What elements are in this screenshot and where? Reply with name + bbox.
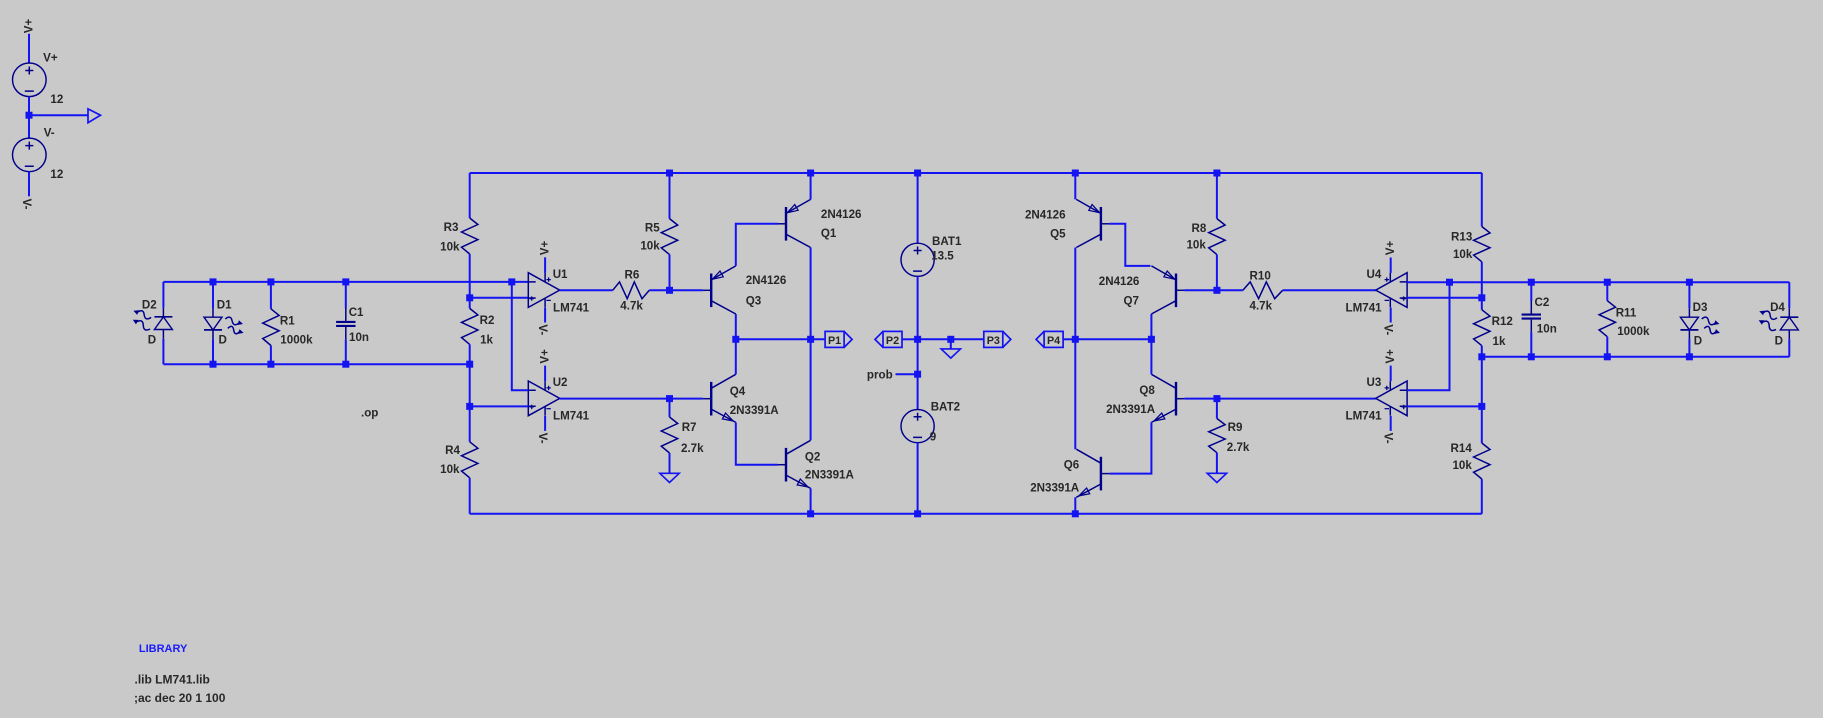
- svg-text:2N4126: 2N4126: [1025, 209, 1066, 222]
- svg-text:prob: prob: [867, 369, 893, 382]
- wire node to R10: [1217, 289, 1243, 291]
- junction lower rail / R11: [1604, 353, 1611, 360]
- junction lower rail / R1: [267, 361, 274, 368]
- wire top bus to R8: [1216, 173, 1218, 219]
- wire R14 to bottom bus: [1481, 479, 1483, 514]
- resistor R12: [1474, 310, 1490, 346]
- wire U2 output to Q4 base: [560, 398, 703, 400]
- svg-text:2.7k: 2.7k: [681, 442, 704, 455]
- wire R7 to ground: [669, 453, 671, 473]
- svg-text:;ac dec 20 1 100: ;ac dec 20 1 100: [134, 691, 226, 705]
- svg-text:2N4126: 2N4126: [746, 274, 787, 287]
- wire source V+ bottom to source V- top: [28, 97, 30, 139]
- wire BAT1 to prob node: [917, 276, 919, 409]
- svg-text:.lib LM741.lib: .lib LM741.lib: [135, 672, 210, 686]
- svg-text:R3: R3: [444, 221, 459, 234]
- svg-text:9: 9: [930, 431, 937, 444]
- wire U2 lower input: [470, 405, 529, 407]
- wire R5 to node: [669, 255, 671, 291]
- svg-text:LM741: LM741: [553, 301, 590, 314]
- wire Q7 base to R8/R10 node: [1184, 289, 1217, 291]
- svg-text:Q8: Q8: [1139, 384, 1155, 397]
- svg-text:R8: R8: [1191, 222, 1206, 235]
- wire U2 V+ stub: [544, 366, 546, 382]
- wire D2 cathode: [162, 339, 164, 364]
- resistor R8: [1209, 219, 1225, 255]
- junction upper rail / C1: [342, 278, 349, 285]
- op-amp U1: [528, 273, 559, 308]
- voltage source V+ (12V): [13, 63, 47, 97]
- svg-text:10n: 10n: [349, 331, 369, 344]
- wire D2 anode: [162, 282, 164, 308]
- wire U3 V- stub: [1390, 416, 1392, 431]
- svg-text:V+: V+: [22, 18, 35, 33]
- svg-text:V-: V-: [1382, 433, 1395, 444]
- junction P4 node on right rail: [1072, 336, 1079, 343]
- junction BAT rail / P2 wire: [914, 336, 921, 343]
- wire BAT2 to bottom bus: [917, 443, 919, 514]
- wire R9 top: [1216, 399, 1218, 419]
- svg-text:Q5: Q5: [1050, 227, 1066, 240]
- wire C2 top: [1530, 282, 1532, 301]
- wire C1 top: [345, 282, 347, 308]
- svg-text:P2: P2: [886, 335, 899, 347]
- wire R2 to R4: [469, 344, 471, 441]
- svg-text:R9: R9: [1228, 421, 1243, 434]
- wire D1 cathode: [212, 339, 214, 364]
- junction bottom bus / Q2 emitter: [807, 510, 814, 517]
- junction Q7/Q8 collectors: [1148, 336, 1155, 343]
- svg-text:D: D: [1694, 334, 1702, 347]
- svg-text:R2: R2: [480, 314, 495, 327]
- svg-text:LIBRARY: LIBRARY: [139, 643, 188, 655]
- wire BAT rail to ground stub: [918, 338, 951, 340]
- svg-text:R4: R4: [445, 444, 460, 457]
- svg-text:P3: P3: [987, 335, 1000, 347]
- svg-text:13.5: 13.5: [931, 250, 954, 263]
- diode D3 (LED, pointing down): [1688, 308, 1690, 339]
- wire Q6 emitter to bottom bus: [1074, 497, 1076, 514]
- wire R13 to R12 (crosses input rail): [1481, 262, 1483, 310]
- svg-text:LM741: LM741: [1346, 301, 1383, 314]
- junction top bus / R5: [666, 170, 673, 177]
- svg-text:U3: U3: [1366, 376, 1381, 389]
- svg-text:V+: V+: [43, 51, 58, 64]
- wire lower rail (diodes): [163, 363, 469, 365]
- diode D4 (photodiode, pointing up): [1788, 308, 1790, 339]
- junction prob tap: [914, 371, 921, 378]
- wire R8 to node: [1216, 255, 1218, 291]
- svg-text:R6: R6: [625, 269, 640, 282]
- wire U3 V+ stub: [1390, 366, 1392, 382]
- junction Q1/Q2 collectors on P1 wire: [807, 336, 814, 343]
- junction U2 lower input tap: [466, 403, 473, 410]
- svg-text:10k: 10k: [640, 240, 660, 253]
- svg-text:V+: V+: [1384, 349, 1397, 364]
- wire U4 lower input: [1407, 297, 1482, 299]
- junction bottom bus / Q6 emitter: [1072, 510, 1079, 517]
- junction Q3/Q4 collectors (node P1): [732, 336, 739, 343]
- wire Q8 emitter to Q6 base: [1109, 422, 1151, 473]
- I/O pin P3: [984, 331, 1003, 347]
- wire source V- bottom to V label: [28, 172, 30, 197]
- wire Q1 emitter to top bus: [810, 173, 812, 199]
- svg-text:BAT2: BAT2: [931, 401, 960, 414]
- wire V+ label to source V+: [28, 34, 30, 64]
- svg-text:Q1: Q1: [821, 227, 837, 240]
- wire upper rail (diodes to U1 + input): [163, 281, 528, 283]
- op-amp U2: [528, 381, 559, 416]
- svg-text:2N3391A: 2N3391A: [805, 469, 855, 482]
- svg-text:Q3: Q3: [746, 294, 762, 307]
- wire Q8 collector up: [1150, 339, 1152, 374]
- svg-text:V-: V-: [536, 324, 549, 335]
- resistor R9: [1209, 419, 1225, 453]
- wire D3 anode: [1688, 282, 1690, 308]
- svg-text:R11: R11: [1616, 306, 1637, 319]
- junction upper rail / U3 input branch: [1446, 279, 1453, 286]
- ground (centre reference): [941, 349, 960, 358]
- junction upper rail / D1: [210, 278, 217, 285]
- junction R5 / R6 / Q3 base: [666, 287, 673, 294]
- wire top supply bus: [470, 172, 1482, 174]
- wire Q6 collector up to P4 node: [1074, 339, 1076, 449]
- svg-text:R13: R13: [1451, 231, 1473, 244]
- svg-text:V+: V+: [1384, 240, 1397, 255]
- junction lower rail / D1: [210, 361, 217, 368]
- wire Q5 base to Q7 emitter: [1109, 224, 1150, 266]
- resistor R3: [462, 218, 478, 254]
- svg-text:10k: 10k: [440, 463, 460, 476]
- svg-text:Q4: Q4: [730, 385, 746, 398]
- svg-text:U1: U1: [553, 268, 568, 281]
- wire U3 upper input branch: [1407, 282, 1449, 390]
- wire R4 to bottom bus: [469, 478, 471, 514]
- svg-text:Q7: Q7: [1124, 294, 1139, 307]
- output pin marker (open triangle): [88, 109, 101, 123]
- svg-text:LM741: LM741: [1346, 410, 1383, 423]
- junction upper rail / C2: [1528, 279, 1535, 286]
- wire Q4 emitter to Q2 base: [736, 422, 778, 464]
- battery BAT1 (13.5V): [901, 243, 934, 276]
- junction lower rail / C2: [1528, 353, 1535, 360]
- transistor Q7 (PNP 2N4126, mirrored): [1175, 274, 1177, 308]
- svg-text:R1: R1: [280, 315, 295, 328]
- voltage source V- (12V): [13, 138, 47, 172]
- wire P4 node to Q7/Q8 node: [1075, 338, 1151, 340]
- resistor R14: [1474, 443, 1490, 479]
- transistor Q3 (PNP 2N4126): [710, 274, 712, 308]
- wire bottom supply bus: [470, 513, 1482, 515]
- svg-text:V-: V-: [536, 433, 549, 444]
- wire lower rail (right diodes): [1482, 356, 1790, 358]
- svg-text:4.7k: 4.7k: [620, 299, 643, 312]
- svg-text:D3: D3: [1693, 301, 1708, 314]
- junction upper rail / R11: [1604, 279, 1611, 286]
- wire midpoint to output pin: [29, 114, 88, 116]
- transistor Q2 (NPN 2N3391A): [785, 448, 787, 482]
- junction upper rail / D3: [1686, 279, 1693, 286]
- op-amp U4 (mirrored): [1376, 273, 1407, 308]
- wire R1 bottom: [270, 346, 272, 365]
- resistor R13: [1474, 227, 1490, 262]
- wire R12 to R14: [1481, 346, 1483, 443]
- junction ground stub: [947, 336, 954, 343]
- wire top bus to BAT1: [917, 173, 919, 243]
- wire R1 top: [270, 282, 272, 309]
- wire D4 bottom: [1788, 339, 1790, 357]
- svg-text:2N4126: 2N4126: [1099, 275, 1140, 288]
- svg-text:D: D: [1775, 334, 1783, 347]
- svg-text:V-: V-: [1382, 324, 1395, 335]
- wire R3 to R2 (crosses input rail): [469, 254, 471, 308]
- svg-text:2N4126: 2N4126: [821, 208, 862, 221]
- wire top bus to R5: [669, 173, 671, 219]
- junction R9 tap: [1213, 395, 1220, 402]
- wire upper rail (U4 + input to diodes): [1407, 281, 1789, 283]
- resistor R5: [661, 219, 677, 255]
- wire P2 flag to BAT rail: [902, 338, 918, 340]
- wire R6 to R5 node: [649, 289, 669, 291]
- wire prob tap: [896, 373, 918, 375]
- transistor Q6 (NPN 2N3391A, mirrored): [1100, 457, 1102, 491]
- junction top bus / R8: [1213, 170, 1220, 177]
- junction lower rail / D3: [1686, 353, 1693, 360]
- svg-text:LM741: LM741: [553, 410, 590, 423]
- svg-text:P4: P4: [1047, 335, 1060, 347]
- ground (below R7): [660, 473, 679, 482]
- svg-text:10k: 10k: [1453, 248, 1473, 261]
- wire D3 cathode: [1688, 339, 1690, 357]
- junction R7 tap: [666, 395, 673, 402]
- wire ground stub down: [950, 339, 952, 348]
- battery BAT2 (9V): [901, 410, 934, 443]
- ground (below R9): [1207, 473, 1226, 482]
- svg-text:1000k: 1000k: [1617, 325, 1650, 338]
- junction R8 / R10 / Q7 base: [1213, 287, 1220, 294]
- svg-text:R14: R14: [1451, 442, 1473, 455]
- svg-text:10k: 10k: [1186, 239, 1206, 252]
- transistor Q5 (PNP 2N4126, mirrored): [1100, 207, 1102, 241]
- wire ground stub to P3 flag: [951, 338, 984, 340]
- junction top bus / BAT1: [914, 170, 921, 177]
- wire P4 flag to right rail: [1063, 338, 1075, 340]
- svg-text:R12: R12: [1492, 315, 1513, 328]
- diode D2 (photodiode, pointing up): [162, 308, 164, 339]
- wire R11 top: [1606, 282, 1608, 301]
- svg-text:D1: D1: [217, 298, 232, 311]
- svg-text:C1: C1: [349, 306, 364, 319]
- junction bottom bus / BAT2: [914, 510, 921, 517]
- svg-text:D2: D2: [142, 298, 157, 311]
- junction R3-R2 / U1 lower input: [466, 294, 473, 301]
- transistor Q4 (NPN 2N3391A): [710, 382, 712, 416]
- svg-text:V-: V-: [20, 199, 33, 210]
- svg-text:V+: V+: [538, 240, 551, 255]
- wire C2 bottom: [1530, 332, 1532, 357]
- op-amp U3 (mirrored): [1376, 381, 1407, 416]
- wire R11 bottom: [1606, 337, 1608, 357]
- svg-text:R5: R5: [645, 222, 660, 235]
- wire Q2 emitter to bottom bus: [810, 488, 812, 513]
- svg-text:R7: R7: [682, 421, 697, 434]
- svg-text:.op: .op: [361, 406, 378, 419]
- wire C1 bottom: [345, 339, 347, 364]
- wire Q3 emitter to Q1 base: [736, 224, 778, 266]
- resistor R11: [1599, 301, 1615, 337]
- wire D1 anode: [212, 282, 214, 308]
- svg-text:10n: 10n: [1537, 323, 1557, 336]
- svg-text:1k: 1k: [1493, 335, 1506, 348]
- wire top bus to R3: [469, 173, 471, 218]
- wire R7 top: [669, 399, 671, 417]
- wire U4 V+ stub: [1390, 258, 1392, 273]
- wire U4 V- stub: [1390, 308, 1392, 323]
- svg-text:Q2: Q2: [805, 450, 820, 463]
- svg-text:U2: U2: [553, 376, 568, 389]
- resistor R4: [462, 442, 478, 478]
- svg-text:1k: 1k: [480, 333, 493, 346]
- wire U1 V- stub: [544, 308, 546, 323]
- wire U1 lower input: [470, 297, 529, 299]
- svg-text:12: 12: [50, 168, 63, 181]
- svg-text:U4: U4: [1366, 268, 1381, 281]
- junction U3 lower input tap: [1478, 403, 1485, 410]
- svg-text:2N3391A: 2N3391A: [1030, 481, 1080, 494]
- junction top bus / Q1 emitter: [807, 170, 814, 177]
- svg-text:4.7k: 4.7k: [1250, 300, 1273, 313]
- resistor R7: [661, 417, 677, 453]
- wire R9 to ground: [1216, 453, 1218, 473]
- I/O pin P2: [883, 331, 902, 347]
- wire U2 V- stub: [544, 416, 546, 431]
- resistor R6: [613, 282, 650, 299]
- svg-text:2.7k: 2.7k: [1227, 441, 1250, 454]
- svg-text:2N3391A: 2N3391A: [1106, 403, 1156, 416]
- svg-text:10k: 10k: [1452, 459, 1472, 472]
- transistor Q8 (NPN 2N3391A, mirrored): [1175, 382, 1177, 416]
- transistor Q1 (PNP 2N4126): [785, 207, 787, 241]
- svg-text:D: D: [148, 334, 156, 347]
- I/O pin P4: [1044, 331, 1063, 347]
- capacitor C2: [1530, 301, 1532, 332]
- wire Q1 collector down to P1 node: [810, 248, 812, 340]
- svg-text:2N3391A: 2N3391A: [730, 404, 780, 417]
- resistor R1: [263, 309, 279, 346]
- wire U3 lower input: [1407, 405, 1482, 407]
- junction R12 bottom / right network lower rail: [1478, 353, 1485, 360]
- junction upper rail / R1: [267, 278, 274, 285]
- svg-text:R10: R10: [1250, 269, 1271, 282]
- wire P1 node to flag: [736, 338, 825, 340]
- wire Q5 emitter to top bus: [1074, 173, 1076, 199]
- wire Q2 collector up to P1 node: [810, 339, 812, 440]
- junction upper rail / U2 input branch: [508, 278, 515, 285]
- junction R2 bottom / diode network lower rail: [466, 361, 473, 368]
- wire U1 V+ stub: [544, 257, 546, 273]
- svg-text:Q6: Q6: [1064, 459, 1080, 472]
- resistor R2: [462, 308, 478, 344]
- junction R13-R12 / U4 lower input: [1478, 294, 1485, 301]
- wire U2 upper input branch: [512, 282, 529, 390]
- wire node to Q3 base: [670, 289, 703, 291]
- svg-text:BAT1: BAT1: [932, 235, 962, 248]
- svg-text:12: 12: [50, 93, 63, 106]
- capacitor C1: [345, 308, 347, 339]
- wire Q5 collector down to P4 node: [1074, 248, 1076, 340]
- wire top bus to R13: [1481, 173, 1483, 227]
- wire Q3 collector down: [735, 314, 737, 339]
- wire Q4 collector up: [735, 339, 737, 374]
- I/O pin P1: [825, 331, 844, 347]
- wire U1 output to R6: [560, 289, 613, 291]
- resistor R10: [1243, 282, 1283, 299]
- wire Q7 collector down: [1150, 314, 1152, 339]
- wire D4 top: [1788, 282, 1790, 308]
- diode D1 (LED, pointing down): [212, 308, 214, 339]
- junction top bus / Q5 emitter: [1072, 170, 1079, 177]
- svg-text:1000k: 1000k: [280, 334, 313, 347]
- svg-text:C2: C2: [1535, 296, 1550, 309]
- junction supply midpoint: [26, 112, 33, 119]
- svg-text:P1: P1: [828, 335, 841, 347]
- junction lower rail / C1: [342, 361, 349, 368]
- wire Q8 base / U3 output: [1184, 398, 1375, 400]
- svg-text:D: D: [219, 334, 227, 347]
- svg-text:D4: D4: [1770, 301, 1785, 314]
- wire R10 to U4 output: [1283, 289, 1376, 291]
- svg-text:V-: V-: [44, 127, 55, 140]
- svg-text:10k: 10k: [440, 240, 460, 253]
- svg-text:V+: V+: [538, 349, 551, 364]
